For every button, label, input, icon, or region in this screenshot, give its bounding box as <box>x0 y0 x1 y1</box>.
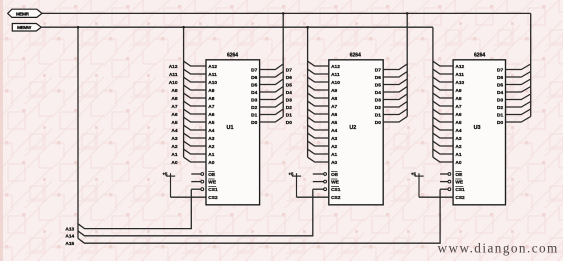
wire: net A13 rail to CS1 of U1 <box>78 189 191 228</box>
U1 pin A5 <box>184 117 206 122</box>
svg-text:+5: +5 <box>411 171 417 176</box>
U2 pin A8 <box>308 93 329 98</box>
svg-text:CS2: CS2 <box>331 195 341 201</box>
U2 pin D2 <box>383 102 407 108</box>
svg-text:D6: D6 <box>375 75 381 81</box>
wire: vertical drop from address bus to A13-A15 taps <box>77 27 79 238</box>
svg-text:A7: A7 <box>171 104 177 110</box>
U2 pin D0 <box>383 117 407 123</box>
svg-text:D0: D0 <box>251 120 257 126</box>
svg-text:D4: D4 <box>497 90 503 96</box>
svg-text:OE: OE <box>331 172 339 178</box>
U2 pin WE <box>313 181 324 183</box>
U2 pin A0 <box>308 157 329 162</box>
U2 pin D1 <box>383 109 407 115</box>
svg-text:+5: +5 <box>288 171 294 176</box>
svg-text:A12: A12 <box>169 64 178 70</box>
U2 pin A1 <box>308 149 329 154</box>
U3 pin A9 <box>433 85 453 90</box>
U1 pin A7 <box>184 101 206 106</box>
svg-text:OE: OE <box>208 172 216 178</box>
U1 pin CS2 <box>171 196 207 198</box>
svg-text:A4: A4 <box>208 128 214 134</box>
svg-text:A13: A13 <box>65 227 74 233</box>
svg-text:A7: A7 <box>455 104 461 110</box>
svg-text:WE: WE <box>331 180 340 186</box>
svg-text:A1: A1 <box>455 152 461 158</box>
svg-text:A14: A14 <box>65 234 74 240</box>
U1 pin D6 <box>260 72 284 78</box>
U1 pin A12 <box>184 61 206 66</box>
U1 pin D3 <box>260 94 284 100</box>
svg-text:D7: D7 <box>375 67 381 73</box>
junction on address bus at x=78 <box>77 26 80 29</box>
svg-text:A11: A11 <box>169 72 178 78</box>
svg-text:6264: 6264 <box>350 52 361 58</box>
wire: address bus horizontal line <box>41 26 433 28</box>
svg-text:D2: D2 <box>375 105 381 111</box>
U2 pin D5 <box>383 79 407 85</box>
svg-text:CS2: CS2 <box>208 195 218 201</box>
U3 pin A12 <box>433 61 453 66</box>
svg-text:A8: A8 <box>171 96 177 102</box>
U2 pin A3 <box>308 133 329 138</box>
svg-text:WE: WE <box>208 180 217 186</box>
wire: data bus vertical collecting U2 data pins <box>406 13 408 116</box>
svg-text:D2: D2 <box>251 105 257 111</box>
svg-text:D5: D5 <box>251 82 257 88</box>
U3 pin D2 <box>506 102 531 108</box>
U3 pin OE <box>440 173 448 175</box>
U3 pin A8 <box>433 93 453 98</box>
svg-text:A8: A8 <box>331 96 337 102</box>
svg-text:A0: A0 <box>171 160 177 166</box>
svg-text:D3: D3 <box>286 97 292 103</box>
svg-text:A12: A12 <box>208 64 217 70</box>
U2 pin D7 <box>383 64 407 70</box>
U1 pin D0 <box>260 117 284 123</box>
U3 pin WE <box>440 181 448 183</box>
U1 pin A3 <box>184 133 206 138</box>
svg-text:A2: A2 <box>455 144 461 150</box>
svg-text:A10: A10 <box>169 80 178 86</box>
svg-text:A9: A9 <box>331 88 337 94</box>
svg-text:D1: D1 <box>286 112 292 118</box>
svg-text:A10: A10 <box>331 80 340 86</box>
U1 pin A4 <box>184 125 206 130</box>
svg-text:A12: A12 <box>455 64 464 70</box>
U2 pin D3 <box>383 94 407 100</box>
svg-text:A11: A11 <box>455 72 464 78</box>
U2 pin A7 <box>308 101 329 106</box>
svg-text:CS1: CS1 <box>208 187 218 193</box>
wire: net A15 rail to CS1 of U3 <box>78 189 440 243</box>
svg-text:A4: A4 <box>171 128 177 134</box>
svg-text:6264: 6264 <box>227 52 238 58</box>
svg-text:A3: A3 <box>171 136 177 142</box>
svg-text:D3: D3 <box>497 97 503 103</box>
svg-text:D7: D7 <box>251 67 257 73</box>
U3 pin A10 <box>433 77 453 82</box>
junction on data bus at x=407.2 <box>406 12 409 15</box>
U2 pin A12 <box>308 61 329 66</box>
memory chip U1 6264 body <box>206 60 260 205</box>
svg-text:D1: D1 <box>251 112 257 118</box>
svg-text:D4: D4 <box>251 90 257 96</box>
U1 pin D7 <box>260 64 284 70</box>
svg-text:CS2: CS2 <box>455 195 465 201</box>
U1 pin WE <box>191 181 201 183</box>
U3 pin CS1 <box>440 188 448 190</box>
svg-text:A8: A8 <box>208 96 214 102</box>
svg-text:U2: U2 <box>349 125 356 131</box>
svg-text:www.diangon.com: www.diangon.com <box>438 241 559 256</box>
svg-text:A5: A5 <box>171 120 177 126</box>
U2 pin A10 <box>308 77 329 82</box>
svg-text:D2: D2 <box>286 105 292 111</box>
svg-text:+5: +5 <box>162 171 168 176</box>
svg-text:U3: U3 <box>474 125 481 131</box>
svg-text:A3: A3 <box>455 136 461 142</box>
U3 pin D6 <box>506 72 531 78</box>
U2 pin D4 <box>383 87 407 93</box>
U3 pin A6 <box>433 109 453 114</box>
U2 pin CS1 <box>313 188 324 190</box>
junction on address bus at x=307.6 <box>306 26 309 29</box>
svg-text:D3: D3 <box>375 97 381 103</box>
power symbol +5V at U1 <box>166 175 175 177</box>
power symbol +5V at U2 <box>292 175 301 177</box>
svg-text:D6: D6 <box>251 75 257 81</box>
svg-text:D6: D6 <box>497 75 503 81</box>
svg-text:WE: WE <box>455 180 464 186</box>
U3 pin A3 <box>433 133 453 138</box>
svg-text:A6: A6 <box>171 112 177 118</box>
svg-text:A2: A2 <box>171 144 177 150</box>
svg-text:A7: A7 <box>331 104 337 110</box>
svg-text:A0: A0 <box>455 160 461 166</box>
svg-text:A11: A11 <box>208 72 217 78</box>
svg-text:A1: A1 <box>171 152 177 158</box>
wire: address bus vertical feeding U1 <box>183 27 185 157</box>
svg-text:A12: A12 <box>331 64 340 70</box>
U1 pin D4 <box>260 87 284 93</box>
svg-text:D3: D3 <box>251 97 257 103</box>
svg-text:A7: A7 <box>208 104 214 110</box>
svg-text:U1: U1 <box>227 125 234 131</box>
U3 pin D3 <box>506 94 531 100</box>
svg-text:A6: A6 <box>455 112 461 118</box>
U1 pin A10 <box>184 77 206 82</box>
svg-text:D4: D4 <box>286 90 292 96</box>
U2 pin OE <box>313 173 324 175</box>
U1 pin A0 <box>184 157 206 162</box>
U2 pin A4 <box>308 125 329 130</box>
svg-text:MEMW: MEMW <box>17 25 32 30</box>
svg-text:A9: A9 <box>455 88 461 94</box>
U1 pin A8 <box>184 93 206 98</box>
U2 pin A2 <box>308 141 329 146</box>
U3 pin A11 <box>433 69 453 74</box>
memory chip U3 6264 body <box>453 60 505 205</box>
U1 pin A9 <box>184 85 206 90</box>
svg-text:A1: A1 <box>208 152 214 158</box>
svg-text:D0: D0 <box>286 120 292 126</box>
U1 pin OE <box>191 173 201 175</box>
U3 pin A5 <box>433 117 453 122</box>
svg-text:A2: A2 <box>331 144 337 150</box>
U3 pin D7 <box>506 64 531 70</box>
svg-text:A2: A2 <box>208 144 214 150</box>
svg-text:A0: A0 <box>208 160 214 166</box>
junction on address bus at x=183.6 <box>182 26 185 29</box>
svg-text:D0: D0 <box>497 120 503 126</box>
svg-text:D5: D5 <box>497 82 503 88</box>
U3 pin A0 <box>433 157 453 162</box>
svg-text:MEMR: MEMR <box>16 11 30 16</box>
svg-text:A4: A4 <box>455 128 461 134</box>
U3 pin D1 <box>506 109 531 115</box>
svg-text:A3: A3 <box>208 136 214 142</box>
svg-text:D7: D7 <box>497 67 503 73</box>
U3 pin A2 <box>433 141 453 146</box>
svg-text:D7: D7 <box>286 67 292 73</box>
svg-text:A10: A10 <box>455 80 464 86</box>
U3 pin A4 <box>433 125 453 130</box>
wire: address bus vertical feeding U2 <box>307 27 309 157</box>
svg-text:6264: 6264 <box>474 52 485 58</box>
U2 pin A5 <box>308 117 329 122</box>
svg-text:CS1: CS1 <box>331 187 341 193</box>
U3 pin A7 <box>433 101 453 106</box>
svg-text:D1: D1 <box>497 112 503 118</box>
svg-text:A3: A3 <box>331 136 337 142</box>
U1 pin D1 <box>260 109 284 115</box>
svg-text:A8: A8 <box>455 96 461 102</box>
wire: address bus vertical feeding U3 <box>432 27 434 157</box>
svg-text:D1: D1 <box>375 112 381 118</box>
svg-text:A5: A5 <box>331 120 337 126</box>
U3 pin D5 <box>506 79 531 85</box>
U1 pin D5 <box>260 79 284 85</box>
wire: data bus horizontal line <box>42 12 531 14</box>
svg-text:CS1: CS1 <box>455 187 465 193</box>
svg-text:D5: D5 <box>375 82 381 88</box>
U2 pin A11 <box>308 69 329 74</box>
wire: net A14 rail to CS1 of U2 <box>78 189 313 236</box>
U1 pin D2 <box>260 102 284 108</box>
U1 pin A1 <box>184 149 206 154</box>
U3 pin D0 <box>506 117 531 123</box>
svg-text:A9: A9 <box>208 88 214 94</box>
svg-text:A11: A11 <box>331 72 340 78</box>
svg-text:A9: A9 <box>171 88 177 94</box>
power symbol +5V at U3 <box>415 175 424 177</box>
port tag MEMR (data bus entry) <box>8 9 42 17</box>
svg-text:A1: A1 <box>331 152 337 158</box>
port tag 2 MEMW (address bus entry) <box>12 24 41 32</box>
svg-text:D4: D4 <box>375 90 381 96</box>
svg-text:D5: D5 <box>286 82 292 88</box>
svg-text:A6: A6 <box>208 112 214 118</box>
U1 pin A6 <box>184 109 206 114</box>
svg-text:D2: D2 <box>497 105 503 111</box>
U1 pin A11 <box>184 69 206 74</box>
svg-text:A5: A5 <box>455 120 461 126</box>
svg-text:A4: A4 <box>331 128 337 134</box>
U3 pin A1 <box>433 149 453 154</box>
svg-text:A6: A6 <box>331 112 337 118</box>
svg-text:D0: D0 <box>375 120 381 126</box>
wire: data bus vertical collecting U1 data pins <box>282 13 284 116</box>
U1 pin A2 <box>184 141 206 146</box>
memory chip U2 6264 body <box>329 60 383 205</box>
svg-text:D6: D6 <box>286 75 292 81</box>
U1 pin CS1 <box>191 188 201 190</box>
U3 pin D4 <box>506 87 531 93</box>
U3 pin CS2 <box>419 196 453 198</box>
wire: data bus vertical collecting U3 data pins <box>530 13 532 116</box>
junction on data bus at x=283.2 <box>282 12 285 15</box>
svg-text:A15: A15 <box>65 241 74 247</box>
U2 pin A9 <box>308 85 329 90</box>
U2 pin D6 <box>383 72 407 78</box>
svg-text:A10: A10 <box>208 80 217 86</box>
svg-text:OE: OE <box>455 172 463 178</box>
svg-text:A0: A0 <box>331 160 337 166</box>
svg-text:A5: A5 <box>208 120 214 126</box>
U2 pin CS2 <box>297 196 329 198</box>
U2 pin A6 <box>308 109 329 114</box>
